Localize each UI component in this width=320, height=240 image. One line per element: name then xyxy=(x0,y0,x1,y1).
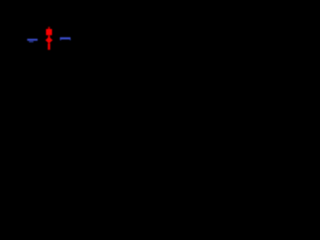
wire (right horizontal, blue) xyxy=(60,37,71,39)
node label (left, blue, short) xyxy=(29,41,33,42)
dependent source (red diamond) xyxy=(45,37,52,44)
terminal nub (top lead of red source branch) xyxy=(48,27,50,29)
wire segment (upper lead, red) xyxy=(48,35,50,37)
node dot (right wire right end, blue) xyxy=(70,39,71,40)
junction tick (right wire left end, blue) xyxy=(60,39,61,40)
wire (left horizontal, blue) xyxy=(27,39,37,41)
wire segment (lower lead, red) xyxy=(48,43,50,50)
voltage source V1 body (red block) xyxy=(46,29,52,35)
